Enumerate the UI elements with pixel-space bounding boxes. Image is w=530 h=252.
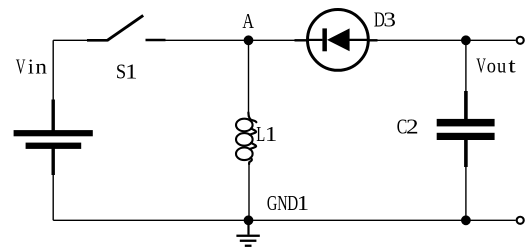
- inductor L1 loop connectors: [250, 129, 256, 135]
- capacitor C2 top plate: [437, 119, 495, 127]
- switch S1 blade: [107, 15, 143, 40]
- diode D3 cathode wire inside circle: [350, 39, 368, 41]
- svg-text:o: o: [487, 54, 496, 77]
- inductor L1 entry hook: [248, 113, 256, 123]
- wire: capacitor to bottom rail: [465, 166, 467, 220]
- capacitor C2 bottom plate: [437, 133, 495, 140]
- wire: node A down to inductor: [248, 40, 250, 117]
- node: bottom right junction dot: [461, 215, 471, 225]
- battery Vin short plate (-): [26, 143, 82, 149]
- wire: output node down to capacitor: [465, 40, 467, 92]
- wire: top left horizontal from battery to switch: [53, 39, 87, 41]
- battery Vin bottom lead thick: [52, 149, 55, 176]
- svg-text:i: i: [28, 55, 34, 79]
- wire: bottom rail: [53, 219, 516, 221]
- label C2: [397, 115, 419, 139]
- wire: diode to output node and terminal: [378, 39, 516, 41]
- svg-text:V: V: [476, 53, 486, 77]
- wire: inductor to ground node: [248, 163, 250, 221]
- capacitor C2 top lead thick: [464, 91, 468, 120]
- capacitor C2 bottom lead thick: [464, 140, 468, 168]
- switch S1 left contact: [87, 39, 108, 42]
- svg-text:2: 2: [406, 115, 419, 139]
- wire: battery bottom lead thin: [52, 174, 54, 220]
- node A junction dot: [244, 35, 254, 45]
- svg-text:t: t: [508, 55, 516, 78]
- label Vin: [16, 55, 47, 79]
- svg-text:G: G: [267, 191, 277, 214]
- wire: switch to node A to diode: [165, 39, 295, 41]
- svg-text:V: V: [16, 55, 26, 79]
- svg-text:1: 1: [125, 60, 137, 83]
- inductor L1 exit hook: [249, 158, 252, 164]
- wire: thick stub into diode left: [295, 39, 308, 41]
- ground GND1 stub: [247, 220, 249, 234]
- svg-text:n: n: [35, 55, 47, 79]
- switch S1 right contact: [146, 39, 166, 42]
- svg-text:N: N: [277, 191, 287, 214]
- svg-text:3: 3: [383, 8, 396, 32]
- battery Vin long plate (+): [14, 130, 93, 136]
- inductor L1 coil loops: [236, 119, 253, 132]
- ground GND1 bar 2: [240, 240, 257, 242]
- svg-text:u: u: [497, 54, 506, 77]
- ground GND1 bar 1: [236, 235, 259, 237]
- svg-text:A: A: [242, 10, 254, 34]
- diode D3 triangle (pointing left): [327, 28, 350, 51]
- diode D3 circle envelope: [308, 10, 369, 71]
- node GND1 junction dot: [244, 215, 254, 225]
- label GND1: [267, 191, 309, 214]
- label S1: [116, 60, 138, 84]
- label L1: [256, 122, 277, 145]
- svg-text:1: 1: [297, 192, 309, 215]
- label A: [242, 10, 254, 34]
- terminal: Vout bottom open circle: [517, 217, 524, 224]
- label Vout: [476, 53, 516, 77]
- battery Vin top lead thick: [52, 100, 55, 131]
- diode D3 anode wire inside circle: [308, 39, 322, 41]
- node: output top junction dot: [461, 35, 471, 45]
- ground GND1 bar 3: [245, 245, 252, 247]
- svg-text:1: 1: [265, 123, 277, 146]
- terminal: Vout top open circle: [517, 37, 524, 44]
- wire: thick stub out of diode right: [368, 39, 378, 41]
- diode D3 cathode bar: [322, 28, 327, 51]
- label D3: [374, 8, 396, 32]
- wire: battery top lead thin: [52, 40, 54, 100]
